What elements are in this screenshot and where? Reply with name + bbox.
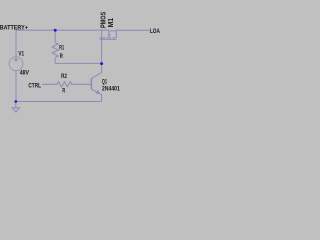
wire bottom rail — [16, 101, 102, 103]
svg-text:48V: 48V — [20, 69, 30, 76]
transistor Q1 base bar — [90, 78, 92, 89]
svg-text:BATTERY+: BATTERY+ — [0, 24, 28, 31]
junction dot bottom rail V1/ground — [14, 100, 17, 103]
wire top rail BATTERY+ — [16, 29, 109, 31]
transistor Q1 emitter — [91, 89, 101, 101]
wire V1 bottom lead — [15, 71, 17, 102]
junction dot on top rail — [54, 29, 57, 32]
svg-text:M1: M1 — [108, 18, 115, 28]
background — [0, 0, 160, 120]
svg-text:R: R — [60, 53, 63, 60]
transistor Q1 emitter arrowhead — [96, 90, 101, 94]
svg-text:R1: R1 — [59, 44, 64, 51]
svg-text:LOAD: LOAD — [150, 28, 160, 35]
svg-text:R: R — [62, 88, 65, 95]
svg-text:PMOS: PMOS — [100, 12, 107, 28]
wire pmos source+gate lead down — [101, 30, 103, 63]
transistor Q1 collector — [91, 63, 101, 78]
resistor R1 top lead — [54, 30, 56, 42]
pmos M1 gate bar — [100, 38, 117, 40]
voltage source V1 circle — [9, 57, 23, 71]
ground flag — [12, 108, 19, 112]
pmos M1 bulk arm — [109, 31, 116, 35]
resistor R1 zigzag — [52, 43, 58, 58]
svg-text:CTRL: CTRL — [28, 82, 41, 89]
svg-text:V1: V1 — [18, 50, 24, 57]
resistor R2 with leads CTRL to base — [42, 82, 91, 87]
svg-text:Q1: Q1 — [102, 78, 107, 85]
svg-text:2N4401: 2N4401 — [102, 85, 120, 92]
pmos M1 bulk arrowhead — [107, 34, 110, 37]
V1 plus mark — [13, 57, 18, 62]
wire V1 top lead — [15, 30, 17, 57]
pmos M1 channel segments — [100, 37, 117, 39]
wire R1 bottom lead — [54, 58, 56, 64]
wire right rail to LOAD — [116, 29, 150, 31]
junction dot node gate/R1/collector — [100, 62, 103, 65]
svg-text:R2: R2 — [61, 73, 67, 80]
ground stem — [15, 102, 17, 108]
pmos M1 drain lead — [115, 30, 117, 38]
wire node to collector — [55, 62, 101, 64]
